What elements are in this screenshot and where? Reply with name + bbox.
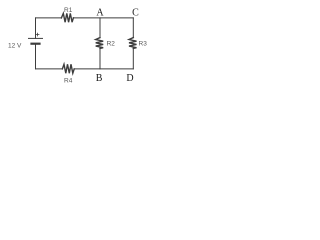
svg-text:R3: R3 bbox=[139, 41, 148, 48]
svg-text:C: C bbox=[132, 8, 139, 19]
svg-text:12 V: 12 V bbox=[8, 43, 22, 50]
svg-text:D: D bbox=[126, 73, 133, 84]
svg-text:A: A bbox=[96, 8, 104, 19]
svg-text:B: B bbox=[96, 73, 103, 84]
svg-text:R2: R2 bbox=[107, 41, 116, 48]
svg-text:R4: R4 bbox=[64, 77, 73, 84]
svg-text:R1: R1 bbox=[64, 7, 73, 14]
